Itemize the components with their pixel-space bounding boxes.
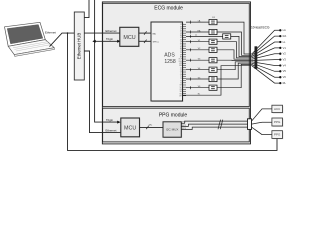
svg-text:T4: T4	[180, 82, 182, 84]
svg-text:ECG module: ECG module	[154, 6, 183, 12]
electrode LA	[279, 29, 281, 31]
svg-text:I2C3: I2C3	[182, 128, 186, 130]
svg-text:Trigin: Trigin	[106, 118, 114, 122]
svg-text:SPICs: SPICs	[153, 42, 160, 44]
svg-text:I2C MUX: I2C MUX	[166, 128, 179, 132]
ECG module box	[103, 3, 250, 106]
sensor ACC1	[272, 105, 283, 113]
wire: MCU to ADS bus 1	[139, 32, 151, 34]
svg-text:Ethernet: Ethernet	[45, 31, 56, 35]
svg-text:RL: RL	[198, 93, 200, 95]
wire: I2C bus 3	[181, 127, 247, 129]
wire: RA to cable bundle	[217, 32, 252, 55]
wire: V4 to cable bundle	[217, 62, 252, 70]
electrode V5	[279, 70, 281, 72]
svg-text:2P: 2P	[180, 28, 182, 30]
svg-text:C4: C4	[180, 74, 182, 76]
svg-text:V6: V6	[283, 75, 287, 79]
svg-text:PPG: PPG	[274, 120, 281, 124]
wire: hub uplink to top edge	[84, 0, 89, 18]
wire: ECG channel LL	[190, 35, 192, 38]
MCU (ECG module)	[120, 27, 140, 47]
svg-text:C3: C3	[180, 72, 182, 74]
wire: laptop Ethernet link	[50, 33, 75, 47]
electrode RL	[279, 82, 281, 84]
wire: rail from ethernet junction around bottom to PPG sensor 2	[68, 33, 278, 150]
I2C MUX	[163, 122, 182, 138]
filter F1	[209, 20, 218, 26]
sensor PPG2	[272, 131, 283, 140]
svg-text:WP: WP	[179, 63, 182, 65]
wire: ECG channel V2	[190, 48, 192, 51]
bus slash	[144, 40, 147, 43]
svg-text:ACC: ACC	[274, 107, 281, 111]
svg-text:C1: C1	[180, 67, 182, 69]
svg-text:1P: 1P	[180, 24, 182, 26]
wire: PPG MCU to I2C MUX	[140, 126, 164, 128]
svg-text:C2: C2	[180, 70, 182, 72]
svg-text:LL: LL	[283, 40, 286, 44]
wire: MCU to ADS SPI bus	[139, 40, 151, 42]
wire: ECG channel V6	[190, 86, 192, 89]
electrode V1	[279, 47, 281, 49]
svg-text:3P: 3P	[180, 33, 182, 35]
wire: LL to cable bundle	[231, 36, 252, 56]
bus slash I2C	[146, 126, 149, 129]
svg-text:I2C1: I2C1	[182, 122, 186, 124]
svg-text:T3: T3	[180, 80, 182, 82]
wire: ECG channel V5	[190, 77, 192, 80]
svg-text:V1: V1	[283, 46, 287, 50]
svg-text:I2C: I2C	[149, 124, 153, 126]
cable connector bar	[255, 46, 258, 69]
ADS 1298 analog front end	[151, 22, 183, 102]
sensor PPG1	[272, 118, 283, 127]
filter F6	[209, 58, 218, 64]
wire: hub to PPG MCU Ethernet	[84, 51, 120, 133]
wire: ECG channel V3	[190, 59, 192, 62]
wire: V3 to cable bundle	[217, 59, 252, 61]
filter F3	[223, 34, 232, 40]
svg-text:V3: V3	[283, 57, 287, 61]
svg-text:ADS: ADS	[164, 53, 175, 59]
svg-text:RL: RL	[283, 81, 287, 85]
svg-text:WT: WT	[179, 95, 182, 97]
svg-text:NA: NA	[153, 32, 157, 35]
svg-text:5P: 5P	[180, 41, 182, 43]
svg-text:Ethernet HUB: Ethernet HUB	[77, 33, 82, 60]
filter F5	[209, 47, 218, 53]
electrode V4	[279, 64, 281, 66]
svg-text:T2: T2	[180, 78, 182, 80]
bus slash marks	[218, 120, 221, 130]
wire: I2C bus 1	[181, 121, 247, 123]
svg-text:MCU: MCU	[123, 35, 135, 41]
wire: to PPG sensor 1	[252, 122, 272, 124]
wire: LA to cable bundle	[217, 22, 252, 54]
wire: V2 to cable bundle	[217, 50, 252, 59]
arrowhead trigger into PPG MCU	[117, 121, 120, 124]
svg-text:Ethernet: Ethernet	[106, 128, 117, 132]
svg-text:LA: LA	[283, 28, 286, 32]
svg-text:4P: 4P	[180, 37, 182, 39]
electrode LL	[279, 41, 281, 43]
wire: to ACC sensor	[252, 109, 272, 121]
svg-text:Ethernet: Ethernet	[106, 29, 117, 33]
electrode V3	[279, 58, 281, 60]
enclosure box (wearable device)	[102, 2, 250, 144]
ethernet hub	[74, 12, 84, 80]
svg-text:PPG module: PPG module	[159, 112, 188, 118]
svg-text:10-lead ECG: 10-lead ECG	[251, 26, 270, 30]
svg-text:I2C2: I2C2	[182, 125, 186, 127]
wire: ECG channel LA	[190, 21, 192, 24]
svg-text:V5: V5	[283, 69, 287, 73]
arrowhead trigger into ECG MCU	[117, 40, 120, 43]
svg-text:MCU: MCU	[124, 126, 136, 132]
svg-text:V2: V2	[283, 52, 287, 56]
svg-text:RA: RA	[283, 34, 287, 38]
wire: ECG channel V4	[190, 68, 192, 71]
laptop (PC)	[5, 22, 55, 56]
electrode RA	[279, 35, 281, 37]
arrowhead trigger into rail	[92, 40, 95, 43]
wire: trigger branch to ECG MCU (bidirectional)	[93, 40, 119, 42]
filter F8	[209, 76, 218, 82]
wire: V6 to cable bundle	[217, 64, 252, 87]
svg-text:Trigin: Trigin	[106, 37, 114, 41]
wire: ECG channel V1	[190, 40, 192, 43]
bus slash	[144, 31, 147, 34]
wire: I2C bus 2	[181, 124, 247, 126]
filter F2	[209, 29, 218, 35]
filter F7	[209, 67, 218, 73]
filter F9	[209, 85, 218, 91]
electrode V2	[279, 53, 281, 55]
electrode V6	[279, 76, 281, 78]
svg-text:1258: 1258	[164, 59, 175, 65]
svg-text:6P: 6P	[180, 46, 182, 48]
svg-text:V4: V4	[283, 63, 287, 67]
wire: to PPG sensor 2	[252, 127, 272, 135]
ADS right side pins	[183, 25, 187, 96]
PPG cable connector	[248, 119, 252, 130]
wire: V5 to cable bundle	[217, 63, 252, 79]
filter F4	[209, 39, 218, 45]
svg-text:8P: 8P	[180, 54, 182, 56]
svg-text:RF: RF	[180, 89, 182, 91]
wire: V1 to cable bundle	[217, 42, 252, 58]
ECG cable fan to electrodes	[252, 30, 280, 83]
svg-text:7P: 7P	[180, 50, 182, 52]
wire: ECG channel RA	[190, 30, 192, 33]
PPG module box	[103, 108, 250, 142]
svg-text:T1: T1	[180, 76, 182, 78]
MCU (PPG module)	[121, 118, 141, 138]
node: junction on ethernet line	[67, 32, 69, 34]
wire: hub to ECG MCU Ethernet	[84, 32, 119, 34]
wire: trigger rail from top edge	[95, 0, 119, 122]
wire: RLD drive to cable	[183, 66, 252, 96]
svg-text:RLP: RLP	[179, 59, 182, 61]
svg-text:PPG: PPG	[274, 133, 281, 137]
